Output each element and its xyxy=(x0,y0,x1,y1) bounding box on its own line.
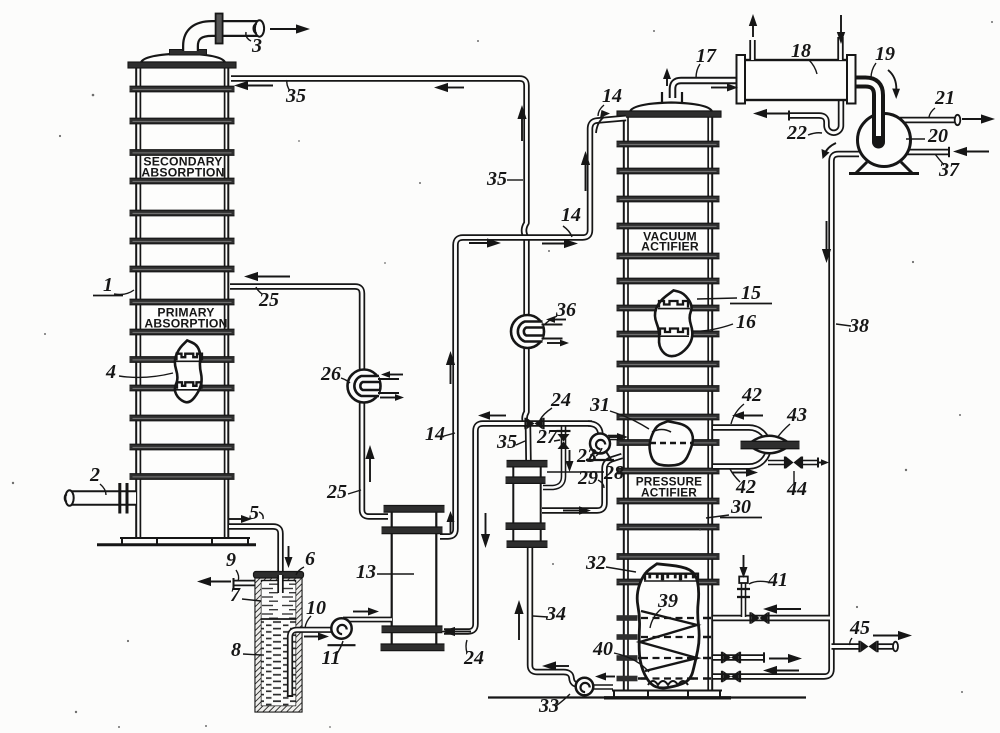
svg-text:ABSORPTION: ABSORPTION xyxy=(144,317,227,331)
svg-text:14: 14 xyxy=(561,204,581,226)
svg-text:40: 40 xyxy=(592,638,613,660)
svg-text:44: 44 xyxy=(786,478,807,500)
feed detail blob 31 xyxy=(650,421,693,465)
text PRIMARY ABSORPTION xyxy=(144,306,227,331)
pipe 25 run (absorber to heater 26 to exch 13) xyxy=(230,287,388,517)
pump 20 (vacuum pump) xyxy=(849,95,919,174)
actifier tray flanges xyxy=(617,141,720,585)
svg-text:ACTIFIER: ACTIFIER xyxy=(641,485,697,499)
lower tray dashed lines (coil zone) xyxy=(617,615,712,681)
svg-text:8: 8 xyxy=(231,639,241,661)
absorber top head flange xyxy=(128,62,236,68)
svg-text:34: 34 xyxy=(545,603,566,625)
pipe 17 (actifier overhead to condenser) xyxy=(673,81,740,99)
svg-text:14: 14 xyxy=(425,423,445,445)
pipe 14 run (exch 13 to vacuum actifier top) xyxy=(440,118,626,537)
svg-text:15: 15 xyxy=(741,282,761,304)
svg-text:14: 14 xyxy=(602,85,622,107)
svg-text:13: 13 xyxy=(356,561,376,583)
svg-text:16: 16 xyxy=(736,311,756,333)
pump 23 xyxy=(586,434,614,461)
pipe 3 fat overhead outlet with flange xyxy=(191,14,265,52)
actifier top nozzle xyxy=(662,92,682,102)
svg-text:35: 35 xyxy=(486,168,507,190)
condenser 18 xyxy=(737,37,856,104)
pump 23 discharge pipe xyxy=(608,435,624,441)
bubble-cap detail 15/16 on vacuum actifier xyxy=(655,290,692,356)
svg-text:10: 10 xyxy=(306,597,326,619)
svg-text:18: 18 xyxy=(791,40,811,62)
pipe 29 (exch 28 to pressure actifier) xyxy=(542,456,622,511)
text PRESSURE ACTIFIER xyxy=(636,475,703,500)
text VACUUM ACTIFIER xyxy=(641,230,699,254)
svg-text:2: 2 xyxy=(89,464,100,486)
heater 26 xyxy=(348,370,400,403)
pump 23 suction bend xyxy=(588,424,601,435)
svg-text:3: 3 xyxy=(251,35,262,57)
svg-text:30: 30 xyxy=(730,496,751,518)
valve on bottom run xyxy=(722,671,740,683)
ejector 43 xyxy=(741,436,800,454)
pipe 21 (pump discharge out) xyxy=(900,115,960,125)
pump 11 xyxy=(328,618,356,645)
pipe 19 (condenser to pump 20) xyxy=(854,82,879,140)
svg-text:21: 21 xyxy=(934,87,955,109)
pump 11 discharge pipe xyxy=(343,617,392,623)
pipe 24 run (valve 24 line down to exch 13) xyxy=(444,424,592,632)
pipe 45 with valve xyxy=(832,641,899,653)
tank inlet continuation xyxy=(277,575,283,593)
svg-text:45: 45 xyxy=(849,617,870,639)
pipe 2 fat gas inlet with flange xyxy=(65,483,136,514)
heat exchanger 13 xyxy=(381,506,445,651)
actifier top head flange xyxy=(617,111,721,117)
svg-text:24: 24 xyxy=(550,389,571,411)
pipe 5 (absorber bottoms to tank) xyxy=(229,527,281,579)
actifier base skirt xyxy=(604,690,731,698)
absorber tower shell (secondary/primary absorption) xyxy=(135,62,229,538)
svg-text:ACTIFIER: ACTIFIER xyxy=(641,240,699,254)
pipe 37 (inlet to pump area) xyxy=(906,147,949,157)
svg-text:32: 32 xyxy=(585,552,606,574)
svg-text:33: 33 xyxy=(538,695,559,717)
heat exchanger 28 xyxy=(506,461,548,548)
svg-text:5: 5 xyxy=(249,502,259,524)
svg-text:11: 11 xyxy=(322,647,341,669)
svg-text:36: 36 xyxy=(555,299,576,321)
svg-text:43: 43 xyxy=(786,404,807,426)
svg-text:38: 38 xyxy=(848,315,869,337)
svg-text:31: 31 xyxy=(589,394,610,416)
actifier tower top dome xyxy=(630,103,712,112)
svg-text:39: 39 xyxy=(657,590,678,612)
svg-text:23: 23 xyxy=(576,445,597,467)
pipe 35 vertical + top run xyxy=(231,79,529,463)
svg-text:25: 25 xyxy=(258,289,279,311)
valve 27 branch to exch 28 xyxy=(543,425,571,488)
svg-text:22: 22 xyxy=(786,122,807,144)
svg-text:27: 27 xyxy=(536,426,558,448)
reboiler coil detail blob 39/40 xyxy=(637,564,699,688)
actifier tower shell (vacuum/pressure actifier) xyxy=(623,111,713,690)
pump 33 xyxy=(576,678,594,696)
valve 44 outlet xyxy=(768,457,818,469)
text SECONDARY ABSORPTION xyxy=(141,155,224,180)
loop 42 (external circulation U) xyxy=(713,428,769,467)
svg-text:17: 17 xyxy=(696,45,717,67)
svg-text:42: 42 xyxy=(741,384,762,406)
seal tank 6/7/8 with hatched walls xyxy=(254,572,304,712)
pipe at 657 with valve xyxy=(713,652,764,664)
tank dip tube + pipe 10 xyxy=(287,630,333,696)
svg-text:25: 25 xyxy=(326,481,347,503)
svg-text:19: 19 xyxy=(875,43,895,65)
svg-text:29: 29 xyxy=(577,467,598,489)
absorber base skirt xyxy=(97,538,256,545)
svg-text:9: 9 xyxy=(226,549,236,571)
svg-text:41: 41 xyxy=(767,569,788,591)
svg-text:6: 6 xyxy=(305,548,315,570)
svg-text:28: 28 xyxy=(603,462,624,484)
pipe to tower at 618 with valve xyxy=(713,612,830,624)
svg-text:4: 4 xyxy=(105,361,116,383)
pipe 34 (exch 28 bottom to pump 33) xyxy=(530,547,583,685)
absorber tray flanges xyxy=(130,86,235,479)
valve 24 xyxy=(526,418,544,430)
absorber top nozzle flange xyxy=(170,50,207,56)
svg-text:ABSORPTION: ABSORPTION xyxy=(141,166,224,180)
absorber tower top dome xyxy=(141,54,225,63)
svg-text:7: 7 xyxy=(230,584,241,606)
svg-text:1: 1 xyxy=(103,274,113,296)
pipe 38 (pump 20 down right side to tower base) xyxy=(713,154,859,677)
bubble-cap detail 4 on absorber xyxy=(175,340,202,402)
svg-text:26: 26 xyxy=(320,363,341,385)
pipe 9 (tank overflow out) xyxy=(234,578,259,588)
ground line xyxy=(488,696,806,698)
svg-text:35: 35 xyxy=(496,431,517,453)
flow arrows xyxy=(197,14,995,681)
pump 33 discharge xyxy=(592,684,613,690)
svg-text:20: 20 xyxy=(927,125,948,147)
heater 36 xyxy=(511,315,563,348)
valve 41 branch xyxy=(737,577,750,618)
pipe 22 condensate trap xyxy=(789,100,841,133)
